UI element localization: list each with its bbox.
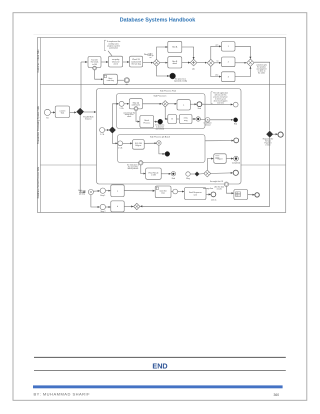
svg-text:batch process: batch process <box>128 167 139 170</box>
svg-text:sent ok: sent ok <box>211 199 217 202</box>
svg-text:Step 1: Step 1 <box>100 194 105 197</box>
svg-text:1 Clk: 1 Clk <box>100 134 104 136</box>
svg-text:else: else <box>215 74 218 76</box>
svg-text:yes: yes <box>216 44 219 46</box>
svg-text:next time: next time <box>217 101 224 104</box>
svg-text:no: no <box>217 60 219 62</box>
svg-text:detail: detail <box>173 62 178 65</box>
svg-text:timeout: timeout <box>205 124 211 127</box>
svg-text:1 Clk: 1 Clk <box>120 108 124 110</box>
svg-text:Task: Task <box>60 113 64 115</box>
svg-text:Box A: Box A <box>172 46 178 49</box>
svg-text:report: report <box>218 157 223 160</box>
svg-text:Process: Process <box>143 121 150 124</box>
svg-text:2: 2 <box>228 62 229 64</box>
svg-text:sent: sent <box>194 193 198 196</box>
svg-text:in time: in time <box>265 143 270 146</box>
svg-text:abc: abc <box>125 84 128 86</box>
svg-text:on: on <box>150 57 152 59</box>
svg-text:Database Systems Handbook: Database Systems Handbook <box>120 18 196 24</box>
svg-text:Database Server Process Side: Database Server Process Side <box>37 166 40 198</box>
svg-text:abc: abc <box>192 68 195 70</box>
svg-text:Completed: Completed <box>232 161 240 164</box>
svg-text:the last day: the last day <box>131 62 141 65</box>
svg-text:Engine: Engine <box>136 145 142 147</box>
svg-text:rows: rows <box>161 192 165 195</box>
svg-text:next day: next day <box>107 79 114 82</box>
svg-text:Sub Process Pool: Sub Process Pool <box>160 90 176 92</box>
svg-text:1: 1 <box>228 46 229 48</box>
svg-text:360: 360 <box>274 393 280 397</box>
svg-text:to DB: to DB <box>92 63 97 66</box>
svg-text:Instance: Instance <box>85 117 92 120</box>
svg-text:b: b <box>117 206 118 208</box>
svg-text:END: END <box>152 361 167 370</box>
svg-text:End: End <box>172 178 175 180</box>
svg-text:S1: S1 <box>46 118 48 120</box>
svg-text:repeated weekly: repeated weekly <box>174 79 187 82</box>
svg-text:Sub Process (2) Batch: Sub Process (2) Batch <box>150 136 170 139</box>
svg-text:the seller: the seller <box>258 72 266 75</box>
svg-text:with frame: with frame <box>132 104 141 107</box>
svg-text:Msg: Msg <box>186 178 189 180</box>
svg-text:Step 2: Step 2 <box>100 210 105 213</box>
svg-text:Uncaught this OK: Uncaught this OK <box>210 180 224 183</box>
svg-text:msg: msg <box>184 120 187 122</box>
svg-text:Customer / Client Side: Customer / Client Side <box>37 49 40 73</box>
svg-text:results: results <box>217 188 222 191</box>
svg-text:and retried: and retried <box>156 128 164 131</box>
svg-text:End: End <box>234 124 237 126</box>
svg-text:BY: MUHAMMAD SHARIF: BY: MUHAMMAD SHARIF <box>34 392 91 397</box>
svg-text:week: week <box>113 63 117 65</box>
svg-text:week: week <box>127 116 131 118</box>
svg-text:3: 3 <box>228 76 229 78</box>
svg-text:message flow: message flow <box>203 188 214 190</box>
svg-text:job step: job step <box>78 193 85 196</box>
svg-text:End: End <box>198 108 201 110</box>
svg-text:in DB: in DB <box>151 174 156 176</box>
svg-text:automation: automation <box>109 47 118 50</box>
svg-text:Transaction Processing System: Transaction Processing System Side <box>37 105 40 144</box>
svg-text:Sub Process 1: Sub Process 1 <box>153 96 167 98</box>
svg-text:1 Clk: 1 Clk <box>118 147 122 149</box>
svg-text:Week XX: Week XX <box>144 54 152 56</box>
